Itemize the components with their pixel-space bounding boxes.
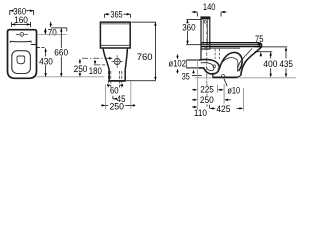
- svg-text:250: 250: [109, 101, 124, 112]
- svg-text:250: 250: [200, 95, 214, 106]
- svg-text:365: 365: [110, 10, 122, 21]
- svg-text:180: 180: [89, 66, 102, 77]
- svg-text:400: 400: [263, 59, 277, 70]
- svg-text:225: 225: [200, 85, 214, 96]
- svg-text:70: 70: [48, 27, 57, 38]
- svg-text:360: 360: [182, 23, 195, 34]
- svg-text:660: 660: [54, 48, 68, 59]
- svg-text:760: 760: [137, 52, 153, 63]
- svg-text:430: 430: [39, 56, 53, 67]
- svg-text:110: 110: [194, 108, 207, 119]
- svg-text:ø102: ø102: [168, 58, 186, 69]
- svg-text:160: 160: [14, 15, 28, 26]
- svg-text:35: 35: [182, 72, 190, 83]
- svg-text:425: 425: [216, 104, 230, 115]
- svg-text:75: 75: [255, 34, 264, 45]
- svg-text:140: 140: [203, 2, 216, 13]
- svg-text:250: 250: [74, 64, 88, 75]
- svg-text:ø10: ø10: [227, 85, 240, 96]
- svg-text:435: 435: [279, 59, 293, 70]
